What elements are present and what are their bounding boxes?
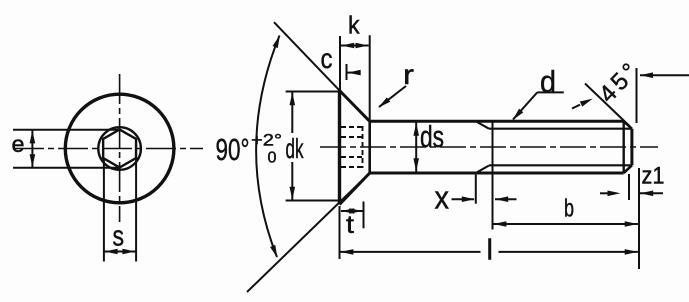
svg-text:+2°: +2° <box>251 131 282 150</box>
svg-text:e: e <box>12 131 25 157</box>
svg-text:b: b <box>564 195 574 223</box>
svg-text:s: s <box>113 221 125 253</box>
svg-text:c: c <box>321 43 333 74</box>
svg-text:ds: ds <box>420 119 444 154</box>
svg-text:k: k <box>348 12 360 40</box>
svg-text:z1: z1 <box>642 163 665 190</box>
svg-text:0: 0 <box>268 150 277 167</box>
svg-text:x: x <box>435 180 450 216</box>
svg-text:90°: 90° <box>216 133 250 167</box>
svg-text:r: r <box>403 59 414 90</box>
svg-text:t: t <box>346 211 354 239</box>
svg-text:d: d <box>540 64 556 99</box>
svg-text:l: l <box>487 235 493 267</box>
svg-text:dk: dk <box>286 133 304 164</box>
